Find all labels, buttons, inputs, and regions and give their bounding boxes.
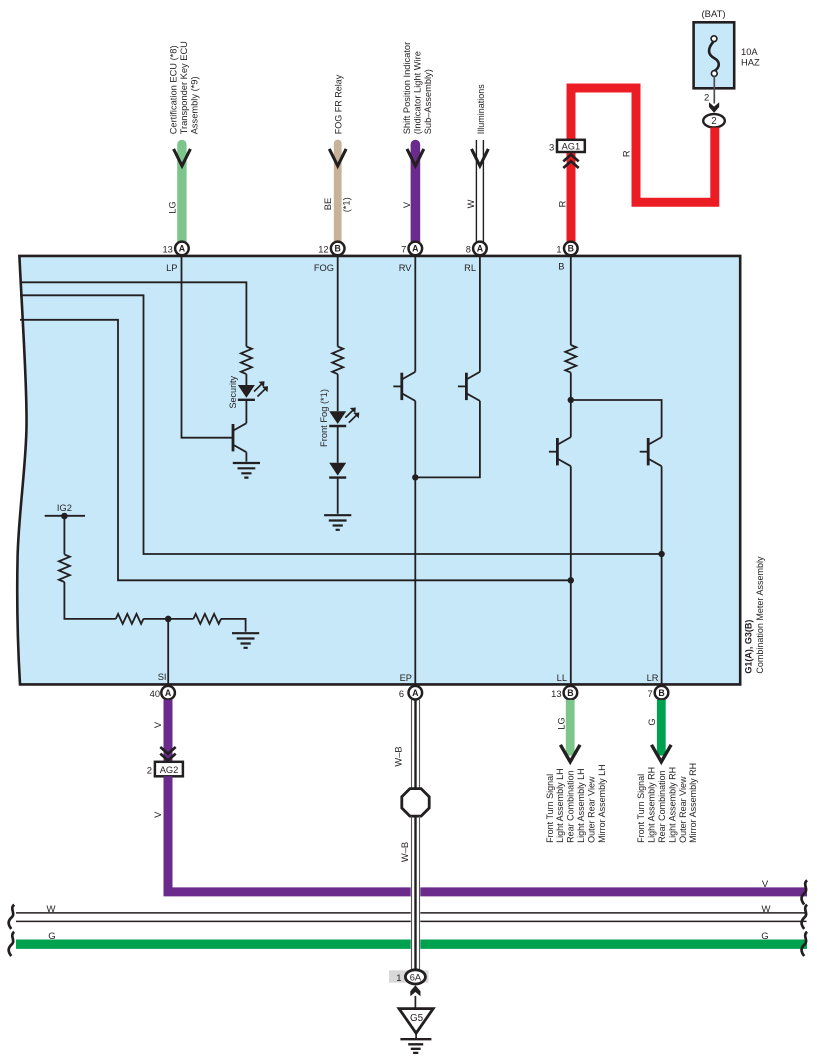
- svg-text:LP: LP: [166, 263, 177, 273]
- arrow LG output: [560, 745, 580, 762]
- svg-text:R: R: [557, 200, 567, 207]
- squiggle G bus left: [9, 932, 15, 956]
- svg-text:RL: RL: [464, 263, 476, 273]
- label Shift Position Indicator (Indicator Light Wire Sub-Assembly): [402, 42, 433, 135]
- pin circle A (SI out): [161, 686, 175, 700]
- arrow G output: [652, 745, 672, 762]
- wire BE from FOG FR relay: [334, 144, 342, 243]
- svg-text:LR: LR: [647, 673, 659, 683]
- label RV: [399, 263, 413, 273]
- transistor Q2 (RV): [393, 372, 415, 401]
- wire G bus (green): [16, 940, 807, 949]
- svg-text:EP: EP: [400, 673, 412, 683]
- junction wireC-LL: [568, 577, 574, 583]
- wire R6 to ground: [221, 619, 246, 632]
- svg-text:12: 12: [318, 244, 328, 254]
- svg-text:B: B: [558, 262, 564, 272]
- svg-text:LG: LG: [167, 201, 177, 213]
- svg-text:13: 13: [162, 244, 172, 254]
- label LP: [166, 263, 177, 273]
- wire R5 to SI junction: [143, 618, 168, 620]
- squiggle G bus right: [802, 932, 808, 956]
- label BE: [323, 198, 333, 210]
- arrow into W wire: [472, 149, 489, 166]
- wire V bus (purple) AG2 down and across: [168, 776, 807, 892]
- LED D1 Security: [238, 381, 268, 400]
- wire LG from Certification ECU: [177, 145, 186, 243]
- label 2 (fuse pin): [704, 93, 709, 104]
- wire Q1 emitter to ground: [245, 452, 247, 461]
- svg-text:40: 40: [150, 689, 160, 699]
- svg-text:B: B: [568, 244, 574, 254]
- resistor R5 (horizontal): [116, 614, 144, 624]
- svg-text:W: W: [47, 904, 56, 915]
- svg-text:1: 1: [396, 973, 401, 984]
- double chevron into AG1: [563, 155, 578, 168]
- svg-text:B: B: [335, 244, 341, 254]
- svg-text:G5: G5: [410, 1013, 424, 1024]
- pin circle A (EP out): [409, 686, 423, 700]
- pin 8 label: [466, 244, 471, 254]
- label V (top): [402, 201, 412, 208]
- label R (lower segment): [557, 200, 567, 207]
- ground point G5 triangle: [399, 1009, 433, 1034]
- transistor Q4 (LL driver): [549, 437, 571, 466]
- svg-text:(BAT): (BAT): [701, 9, 725, 20]
- wire LG output: [566, 700, 575, 756]
- svg-text:B: B: [567, 688, 573, 698]
- label Front Fog (*1): [319, 389, 329, 447]
- wire SI vertical to pin 40A: [167, 619, 169, 684]
- resistor R4 (IG2 vertical): [59, 554, 70, 582]
- svg-text:Rear Combination: Rear Combination: [566, 770, 576, 843]
- squiggle V bus right: [802, 880, 808, 904]
- junction SI node: [165, 616, 172, 623]
- transistor Q3 (RL): [458, 372, 480, 401]
- svg-text:AG1: AG1: [562, 141, 581, 151]
- diode D3: [329, 463, 346, 478]
- label LG: [167, 201, 177, 213]
- svg-text:R: R: [622, 150, 632, 157]
- wire: node A horizontal feed to security resistor: [20, 282, 246, 346]
- ground (security): [233, 463, 260, 478]
- wire Q4 emitter to pin LL: [570, 466, 572, 683]
- label Illuminations: [476, 84, 486, 135]
- svg-text:HAZ: HAZ: [741, 56, 760, 67]
- label W (bus right): [762, 904, 771, 915]
- pin circle B (FOG): [331, 242, 345, 256]
- svg-text:Transponder Key ECU: Transponder Key ECU: [179, 41, 189, 134]
- ground (front fog): [324, 515, 351, 530]
- svg-text:2: 2: [704, 93, 709, 104]
- wire R below AG1 to pin 1B: [567, 152, 576, 243]
- svg-text:A: A: [412, 688, 419, 698]
- svg-text:Combination Meter Assembly: Combination Meter Assembly: [755, 556, 765, 674]
- arrow up into 6A: [410, 985, 420, 996]
- svg-text:FOG: FOG: [314, 263, 334, 273]
- svg-text:Mirror Assembly LH: Mirror Assembly LH: [597, 764, 607, 843]
- wire Q5 emitter to pin LR: [661, 466, 663, 683]
- connector oval 6A: [405, 970, 425, 984]
- label FOG: [314, 263, 334, 273]
- wire B vertical from pin 1B: [570, 256, 572, 345]
- svg-text:Rear Combination: Rear Combination: [657, 770, 667, 843]
- label W (bus left): [47, 904, 56, 915]
- pin 7 label (LR out): [648, 689, 653, 699]
- svg-text:Front Turn Signal: Front Turn Signal: [636, 774, 646, 843]
- wire fuse to connector 2: [713, 76, 715, 103]
- ground (G5): [400, 1039, 431, 1053]
- junction IG2: [61, 513, 68, 520]
- pin 7 label: [401, 244, 406, 254]
- svg-text:Assembly (*9): Assembly (*9): [189, 76, 199, 134]
- transistor Q1 (security): [233, 423, 246, 452]
- combination meter assembly box G1(A),G3(B): [17, 256, 740, 685]
- wire resistor R3 to junction: [570, 373, 572, 400]
- resistor R1 (security chain): [241, 347, 252, 375]
- svg-text:FOG FR Relay: FOG FR Relay: [334, 74, 344, 134]
- svg-text:RV: RV: [399, 263, 413, 273]
- svg-text:W: W: [466, 199, 476, 208]
- wire G output: [657, 700, 666, 756]
- svg-text:V: V: [153, 811, 163, 818]
- wire FOG vertical from pin 12B: [337, 256, 339, 347]
- svg-text:Security: Security: [228, 375, 238, 408]
- svg-text:B: B: [658, 688, 664, 698]
- wire: node B feed (left edge down and across to LR): [20, 295, 662, 554]
- transistor Q5 (LR driver): [640, 437, 662, 466]
- label EP: [400, 673, 412, 683]
- svg-text:7: 7: [401, 244, 406, 254]
- svg-text:AG2: AG2: [160, 765, 179, 775]
- pin circle A (LP): [175, 242, 189, 256]
- svg-text:6A: 6A: [410, 973, 422, 983]
- wire W-B lower (octagon to 6A) crossing buses: [411, 816, 421, 970]
- resistor R3 (B chain): [565, 345, 576, 373]
- label 10A HAZ: [741, 46, 760, 68]
- pin circle B (LL out): [564, 686, 578, 700]
- svg-text:G: G: [761, 931, 768, 942]
- node IG2: [45, 515, 85, 517]
- label 1 (6A pin): [396, 973, 401, 984]
- label W-B (lower): [400, 842, 410, 862]
- svg-text:V: V: [762, 879, 769, 890]
- connector oval 2: [703, 114, 725, 127]
- shaded tag behind 6A: [389, 970, 429, 982]
- svg-text:6: 6: [399, 689, 404, 699]
- wire resistor R2 to LED D2: [337, 374, 339, 411]
- svg-text:2: 2: [147, 766, 152, 777]
- label B: [558, 262, 564, 272]
- svg-text:Sub–Assembly): Sub–Assembly): [423, 69, 433, 134]
- label 3 (AG1 pin): [549, 142, 554, 153]
- label G1(A), G3(B): [743, 620, 753, 674]
- label RL: [464, 263, 476, 273]
- label W (top): [466, 199, 476, 208]
- wire EP vertical to pin 6A: [414, 477, 416, 683]
- wire: node C feed (left edge down and across to LL): [20, 320, 571, 581]
- svg-text:G: G: [647, 718, 657, 725]
- label Combination Meter Assembly: [755, 556, 765, 674]
- svg-text:A: A: [165, 688, 172, 698]
- svg-text:2: 2: [711, 116, 716, 127]
- wire V from Shift Position Indicator: [411, 145, 421, 243]
- wire LED D1 to Q1 collector: [245, 400, 247, 423]
- label V (lower wire): [153, 811, 163, 818]
- double chevron into AG2: [160, 747, 175, 760]
- wire diode D3 to ground: [337, 478, 339, 514]
- pin 12 label: [318, 244, 328, 254]
- svg-text:Certification ECU (*8): Certification ECU (*8): [169, 45, 179, 134]
- junction wireB-LR: [658, 551, 664, 557]
- wire Q2 emitter down to EP junction: [414, 401, 416, 478]
- svg-text:A: A: [477, 244, 484, 254]
- wire B node across to Q5 collector: [571, 400, 662, 437]
- svg-text:Mirror Assembly RH: Mirror Assembly RH: [688, 763, 698, 843]
- pin circle B (B): [564, 242, 578, 256]
- wire W bus (two-line white wire): [16, 913, 807, 922]
- svg-text:3: 3: [549, 142, 554, 153]
- junction EP node: [412, 474, 418, 480]
- svg-text:Light Assembly LH: Light Assembly LH: [576, 768, 586, 843]
- label FOG FR Relay: [334, 74, 344, 134]
- label G (bus right): [761, 931, 768, 942]
- ground (SI divider): [232, 633, 259, 648]
- wire LED D2 to diode D3: [337, 426, 339, 463]
- label SI: [158, 672, 167, 682]
- label W-B (upper): [394, 746, 404, 766]
- svg-text:10A: 10A: [741, 46, 758, 57]
- svg-text:13: 13: [551, 689, 561, 699]
- LED D2 Front Fog: [329, 408, 359, 427]
- svg-text:W: W: [762, 904, 771, 915]
- pin 6 label: [399, 689, 404, 699]
- label (*1): [341, 197, 351, 212]
- wire W-B upper (EP to noise filter): [412, 700, 420, 789]
- pin circle A (RL): [473, 242, 487, 256]
- svg-text:BE: BE: [323, 198, 333, 210]
- label Certification ECU (*8) Transponder Key ECU Assembly (*9): [169, 41, 200, 134]
- svg-text:W–B: W–B: [400, 842, 410, 862]
- label G (bus left): [48, 931, 55, 942]
- pin 13 label (LL out): [551, 689, 561, 699]
- label G (output): [647, 718, 657, 725]
- squiggle W bus left: [9, 905, 15, 929]
- fuse box 10A HAZ: [694, 22, 735, 88]
- svg-text:7: 7: [648, 689, 653, 699]
- svg-text:Outer Rear View: Outer Rear View: [586, 776, 596, 843]
- svg-text:V: V: [153, 721, 163, 728]
- svg-text:IG2: IG2: [57, 503, 72, 513]
- svg-text:V: V: [402, 201, 412, 208]
- arrow into LG wire: [174, 149, 191, 166]
- pin circle B (LR out): [655, 686, 669, 700]
- label V (SI upper): [153, 721, 163, 728]
- connector AG1: [557, 140, 585, 152]
- svg-text:G: G: [48, 931, 55, 942]
- squiggle W bus right: [802, 905, 808, 929]
- label IG2: [57, 503, 72, 513]
- wire W from Illuminations: [476, 140, 483, 242]
- wire LP vertical from pin 13A to Q1 base: [182, 256, 233, 438]
- wire V from SI pin to AG2: [164, 700, 173, 762]
- wire IG2 down: [63, 516, 65, 554]
- resistor R2 (front fog chain): [332, 347, 343, 375]
- svg-text:LG: LG: [556, 717, 566, 729]
- label LR: [647, 673, 659, 683]
- noise filter octagon: [402, 789, 429, 817]
- arrow into BE wire: [329, 149, 346, 166]
- wire SI junction to resistor R6: [168, 618, 193, 620]
- pin circle A (RV): [409, 242, 423, 256]
- pin 40 label: [150, 689, 160, 699]
- svg-text:Front Turn Signal: Front Turn Signal: [545, 774, 555, 843]
- svg-text:LL: LL: [557, 673, 567, 683]
- svg-text:(*1): (*1): [341, 197, 351, 212]
- svg-text:8: 8: [466, 244, 471, 254]
- junction B node: [568, 397, 574, 403]
- arrow into V wire: [407, 149, 424, 166]
- label LL: [557, 673, 567, 683]
- wire G5 to ground: [415, 1033, 417, 1038]
- svg-text:Light Assembly LH: Light Assembly LH: [555, 768, 565, 843]
- svg-text:SI: SI: [158, 672, 167, 682]
- arrow into connector 2: [709, 102, 719, 113]
- svg-text:Outer Rear View: Outer Rear View: [678, 776, 688, 843]
- wire Q3 emitter joins EP junction: [415, 401, 480, 478]
- wire B node down to Q4 collector: [570, 400, 572, 437]
- svg-text:A: A: [179, 244, 186, 254]
- resistor R6 (horizontal to ground): [193, 614, 221, 624]
- label LG (output): [556, 717, 566, 729]
- label 2 (AG2 pin): [147, 766, 152, 777]
- svg-text:1: 1: [556, 244, 561, 254]
- label R (right segment): [622, 150, 632, 157]
- label (BAT): [701, 9, 725, 20]
- wire R4 to corner and right: [64, 582, 115, 619]
- pin 13 label: [162, 244, 172, 254]
- label V (bus right): [762, 879, 769, 890]
- svg-text:(Indicator Light Wire: (Indicator Light Wire: [412, 51, 422, 134]
- wire arrow to G5 triangle: [414, 996, 416, 1009]
- svg-text:G1(A), G3(B): G1(A), G3(B): [743, 620, 753, 674]
- svg-text:A: A: [412, 244, 419, 254]
- svg-text:Shift Position Indicator: Shift Position Indicator: [402, 42, 412, 135]
- svg-text:Illuminations: Illuminations: [476, 84, 486, 135]
- svg-text:Light Assembly RH: Light Assembly RH: [667, 767, 677, 843]
- svg-text:Light Assembly RH: Light Assembly RH: [647, 767, 657, 843]
- wire RV vertical from pin 7A to Q2: [414, 256, 416, 372]
- wire RL vertical from pin 8A to Q3: [479, 256, 481, 372]
- pin 1 label: [556, 244, 561, 254]
- svg-text:W–B: W–B: [394, 746, 404, 766]
- wire resistor R1 to LED D1: [245, 374, 247, 385]
- label Security: [228, 375, 238, 408]
- fuse element: [709, 36, 719, 77]
- connector AG2: [155, 762, 183, 777]
- wire R battery feed (thick red): [571, 88, 715, 202]
- svg-text:Front Fog (*1): Front Fog (*1): [319, 389, 329, 447]
- label Front Turn Signal ... RH: [636, 763, 698, 843]
- label Front Turn Signal ... LH: [545, 764, 607, 843]
